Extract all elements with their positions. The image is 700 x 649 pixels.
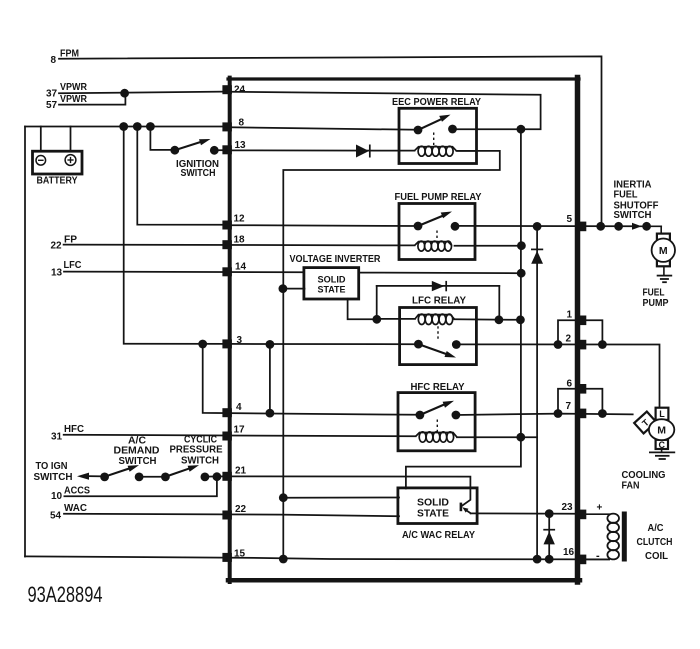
junction dot jumper bottom on pin 4 line — [266, 409, 275, 418]
LFC relay arm arrowhead — [445, 351, 457, 358]
wire HFC coil return to rail and diode drop — [457, 436, 537, 438]
junction dot LFC coil left node — [372, 315, 381, 324]
junction dot 5-line at clutch diode vertical — [533, 222, 542, 231]
wire clutch diode drop from 5-line to ground line — [536, 226, 538, 559]
diode D4 A/C clutch flyback — [544, 531, 555, 544]
svg-text:31: 31 — [51, 432, 63, 443]
LFC relay switch pivot contact — [414, 340, 423, 349]
svg-text:VPWR: VPWR — [60, 82, 88, 93]
TO IGN SWITCH arrowhead — [77, 473, 89, 480]
wire pin 12 to fuel pump relay pivot — [229, 224, 418, 227]
wire LFC flyback diode right drop — [498, 286, 500, 320]
wire pin 1 jumper right bracket — [584, 320, 602, 344]
ignition switch fixed contact — [210, 146, 219, 155]
EEC relay switch fixed contact — [448, 125, 457, 134]
svg-text:ACCS: ACCS — [64, 486, 90, 497]
svg-text:FUEL: FUEL — [614, 190, 638, 201]
svg-text:EEC POWER RELAY: EEC POWER RELAY — [392, 97, 481, 108]
svg-text:FP: FP — [64, 235, 77, 246]
ECU main box left edge — [228, 78, 232, 582]
junction dot VPWR rail top — [517, 125, 526, 134]
EEC relay coil — [415, 147, 477, 151]
wire 54 WAC line to A/C WAC relay — [64, 514, 399, 517]
junction dot ACCS at pin 21 — [213, 472, 222, 481]
svg-text:8: 8 — [51, 55, 57, 66]
ignition switch arm arrowhead — [199, 139, 211, 145]
A/C clutch coil windings — [607, 514, 619, 560]
junction dot pin1 bracket right on 2-line — [598, 340, 607, 349]
junction dot pin3 feed to pin4 riser — [198, 340, 207, 349]
pin 6 square — [576, 384, 586, 394]
fan motor circle — [649, 419, 674, 440]
svg-text:4: 4 — [236, 402, 242, 413]
svg-text:23: 23 — [562, 502, 574, 513]
LFC relay dashed actuator link — [437, 326, 439, 339]
junction dot inverter feed — [279, 284, 288, 293]
svg-text:18: 18 — [234, 235, 246, 246]
svg-text:C: C — [659, 440, 666, 450]
LFC relay switch fixed contact — [452, 340, 461, 349]
cyclic pressure switch pivot contact — [161, 473, 170, 482]
wire inverter output top to VPWR rail — [359, 272, 522, 275]
wire bus drop to ignition switch — [150, 127, 171, 150]
diode D4 bar — [543, 529, 555, 531]
svg-text:FUEL PUMP RELAY: FUEL PUMP RELAY — [395, 192, 482, 203]
svg-text:SWITCH: SWITCH — [181, 456, 219, 467]
pin 16 square — [576, 555, 586, 565]
EEC relay switch pivot contact — [414, 126, 423, 135]
wire 22 FP line to fuel pump relay coil — [64, 244, 415, 247]
wire bus drop to pin 12 — [137, 127, 223, 225]
svg-text:STATE: STATE — [318, 285, 346, 295]
pin 23 square — [576, 510, 586, 520]
A/C demand switch fixed contact — [135, 473, 144, 482]
svg-text:FPM: FPM — [60, 49, 79, 60]
junction dot WAC feed on vertical — [279, 493, 288, 502]
junction dot jumper top on pin 3 line — [266, 340, 275, 349]
svg-text:HFC: HFC — [64, 424, 84, 435]
svg-text:1: 1 — [567, 310, 573, 321]
A/C clutch coil leads — [583, 514, 610, 559]
HFC relay dashed actuator link — [436, 420, 438, 433]
junction dot rail at LFC coil — [516, 315, 525, 324]
wire TO IGN SWITCH lead — [87, 475, 105, 477]
svg-text:-: - — [596, 550, 600, 562]
svg-text:13: 13 — [51, 268, 63, 279]
diode D2 bar — [445, 281, 447, 291]
svg-text:21: 21 — [235, 466, 247, 477]
svg-text:PUMP: PUMP — [643, 298, 669, 309]
pin 13 square — [222, 145, 232, 154]
cooling fan motor M2 — [634, 408, 674, 449]
inertia switch arrowhead — [632, 223, 642, 230]
svg-text:7: 7 — [566, 401, 572, 412]
svg-text:HFC RELAY: HFC RELAY — [411, 382, 465, 393]
svg-text:SOLID: SOLID — [417, 498, 449, 509]
wire pin 6 jumper left bracket — [558, 389, 577, 414]
pin 2 square — [576, 340, 586, 350]
fuel pump relay coil — [415, 242, 453, 246]
HFC relay switch pivot contact — [416, 411, 425, 420]
svg-text:L: L — [659, 409, 665, 419]
wire pin 24 to EEC relay contact feed — [229, 92, 541, 130]
svg-text:14: 14 — [235, 262, 247, 273]
cyclic pressure switch arm arrowhead — [188, 465, 199, 472]
inertia switch left contact — [614, 222, 623, 231]
cyclic pressure switch fixed contact — [201, 473, 210, 482]
A/C demand switch pivot contact — [100, 473, 109, 482]
pin 4 square — [222, 408, 232, 417]
wire inverter bottom output to LFC coil node — [348, 299, 377, 320]
wire EEC coil return loop to voltage inverter feed — [283, 151, 500, 559]
inertia switch right contact — [642, 222, 651, 231]
A/C demand switch arm — [105, 468, 130, 476]
EEC power relay box U1 — [399, 108, 477, 163]
ECU main box top edge — [228, 77, 579, 80]
svg-text:24: 24 — [234, 85, 246, 96]
wire far-left ground return down — [24, 127, 26, 557]
LFC relay box U3 — [400, 308, 477, 365]
A/C clutch coil core bar — [622, 512, 627, 562]
wire 57 VPWR with riser to 37 VPWR — [59, 93, 125, 104]
svg-text:FUEL: FUEL — [643, 288, 665, 299]
pin 18 square — [222, 240, 232, 249]
junction dot rail at FP coil — [517, 241, 526, 250]
svg-text:BATTERY: BATTERY — [37, 176, 78, 187]
fuel pump relay switch arm — [418, 216, 443, 226]
pin 1 square — [576, 316, 586, 326]
svg-text:22: 22 — [51, 241, 63, 252]
wire pin 21 line to WAC transistor base — [229, 476, 470, 505]
svg-text:M: M — [657, 425, 666, 437]
EEC relay switch arm — [418, 119, 441, 130]
svg-text:93A28894: 93A28894 — [28, 582, 103, 607]
junction dot VPWR — [120, 89, 129, 98]
wire battery bus — [25, 126, 223, 128]
battery box — [33, 151, 83, 174]
wire LFC flyback diode line — [377, 285, 500, 287]
svg-text:SWITCH: SWITCH — [181, 168, 216, 179]
wire HFC switch output 7-line to cooling fan — [456, 414, 633, 415]
svg-text:DEMAND: DEMAND — [114, 446, 160, 457]
wire cyclic switch contact to pin 21 — [205, 475, 223, 477]
pin 7 square — [576, 409, 586, 419]
svg-text:A/C WAC RELAY: A/C WAC RELAY — [402, 530, 475, 541]
wire jumper pin3-line to pin4-line — [269, 344, 271, 413]
svg-text:16: 16 — [563, 547, 575, 558]
wire battery negative lead — [40, 127, 42, 152]
svg-text:CLUTCH: CLUTCH — [637, 537, 673, 548]
wire ground line along bottom — [25, 556, 609, 559]
wire 31 HFC line to HFC relay coil — [64, 435, 416, 437]
svg-text:LFC RELAY: LFC RELAY — [412, 296, 466, 307]
svg-text:17: 17 — [234, 425, 246, 436]
svg-text:37: 37 — [46, 89, 58, 100]
wire fuel pump relay output 5-line — [455, 225, 661, 227]
pin 17 square — [222, 432, 232, 441]
ignition switch pivot contact — [170, 146, 179, 155]
pin 22 square — [222, 511, 232, 520]
LFC relay coil — [415, 315, 455, 320]
voltage inverter solid state box U5 — [304, 268, 359, 299]
HFC relay coil — [416, 433, 458, 438]
svg-text:2: 2 — [566, 334, 572, 345]
pin 12 square — [222, 221, 232, 230]
svg-text:12: 12 — [234, 214, 246, 225]
junction dot FPM at 5-line — [596, 222, 605, 231]
junction dot clutch feed diode at ground — [533, 555, 542, 564]
junction dot LFC diode right node — [495, 315, 504, 324]
svg-text:A/C: A/C — [648, 523, 664, 534]
wire 37 VPWR to pin 24 — [59, 92, 223, 94]
fuel pump motor M1 — [652, 226, 675, 266]
wire 13 LFC line to pin 14 — [64, 271, 304, 274]
svg-text:13: 13 — [235, 140, 247, 151]
A/C demand switch arm arrowhead — [128, 465, 139, 472]
wire ignition switch contact to pin 13 — [214, 149, 223, 151]
ECU main box bottom edge — [228, 578, 580, 583]
svg-text:PRESSURE: PRESSURE — [170, 445, 223, 456]
fuel pump relay box U2 — [399, 204, 475, 260]
wire FPM top run and right drop to fuel pump node — [59, 56, 602, 226]
svg-text:SWITCH: SWITCH — [34, 472, 73, 483]
wire 10 ACCS line with riser to pin 21 line — [64, 477, 217, 496]
wire LFC coil return to VPWR rail — [377, 318, 415, 320]
wire fuel pump relay coil return to VPWR rail — [455, 245, 522, 247]
wire LFC switch output to pin 2 and cooling fan — [456, 344, 659, 408]
fan C terminal block — [656, 440, 668, 449]
junction dot rail at inverter line — [517, 269, 526, 278]
wire bus drop to pin 3 line — [124, 127, 229, 344]
EEC relay arm arrowhead — [439, 115, 450, 122]
svg-text:VOLTAGE INVERTER: VOLTAGE INVERTER — [290, 254, 382, 265]
fan L terminal block — [656, 408, 669, 420]
junction dot bus C — [146, 122, 155, 131]
pin 8 square — [222, 122, 232, 131]
fuel pump relay arm arrowhead — [441, 212, 452, 219]
HFC relay box U4 — [398, 393, 475, 451]
svg-text:STATE: STATE — [417, 509, 449, 520]
HFC relay switch arm — [420, 404, 445, 415]
pin 24 square — [222, 85, 232, 94]
wire WAC transistor emitter to pin 23 line — [467, 511, 471, 514]
junction dot bus A — [119, 122, 128, 131]
diode D3 bar — [531, 248, 543, 250]
fuel pump ground — [657, 266, 673, 282]
svg-text:COOLING: COOLING — [622, 470, 666, 481]
wire battery positive lead — [70, 127, 72, 152]
svg-text:VPWR: VPWR — [60, 94, 88, 105]
wire WAC relay feed stub from vertical — [283, 497, 399, 499]
WAC transistor base bar — [460, 503, 463, 512]
diode D1 on pin 13 line — [356, 145, 369, 158]
wire VPWR rail vertical — [406, 129, 521, 488]
svg-text:LFC: LFC — [64, 260, 82, 271]
fuel pump relay dashed actuator link — [436, 231, 438, 242]
svg-text:+: + — [597, 503, 603, 514]
HFC relay arm arrowhead — [443, 401, 454, 408]
HFC relay switch fixed contact — [452, 411, 461, 420]
diode D3 on clutch feed vertical — [531, 251, 543, 264]
wire pin 13 to EEC relay coil (diode segment) — [229, 149, 415, 151]
svg-text:22: 22 — [235, 504, 247, 515]
cooling fan ground — [649, 449, 675, 459]
EEC relay dashed actuator link — [433, 133, 435, 147]
junction dot vertical at ground line — [279, 555, 288, 564]
svg-text:M: M — [659, 245, 668, 257]
junction dot pin6 bracket left on 7-line — [554, 409, 563, 418]
svg-text:FAN: FAN — [622, 481, 640, 492]
fuel pump relay switch fixed contact — [451, 222, 460, 231]
svg-text:6: 6 — [567, 379, 573, 390]
A/C WAC relay solid state box U6 — [398, 488, 477, 524]
ignition switch arm — [175, 142, 202, 151]
ECU main box right edge — [575, 78, 581, 583]
pin 14 square — [222, 267, 232, 276]
diode D2 LFC flyback — [432, 281, 445, 291]
diode D1 bar — [369, 145, 371, 158]
wire pin 3 LFC switch line — [229, 343, 418, 345]
wire pin 4 feed riser from pin 3 line — [203, 344, 420, 415]
svg-text:10: 10 — [51, 491, 63, 502]
LFC relay switch arm — [418, 344, 446, 354]
svg-text:5: 5 — [567, 214, 573, 225]
wire pin 8 to EEC relay switch pivot — [229, 127, 418, 130]
svg-text:54: 54 — [50, 511, 62, 522]
wire between demand and cyclic switches — [139, 476, 165, 478]
wire pin 6 jumper right bracket — [584, 389, 602, 414]
svg-text:57: 57 — [46, 100, 58, 111]
svg-text:COIL: COIL — [645, 551, 668, 562]
WAC transistor emitter arrowhead — [462, 507, 468, 512]
junction dot clutch flyback top on 23-line — [545, 509, 554, 518]
svg-text:SWITCH: SWITCH — [119, 456, 157, 467]
pin 3 square — [222, 339, 232, 348]
junction dot rail at HFC coil — [516, 433, 525, 442]
junction dot clutch flyback bottom on ground — [545, 555, 554, 564]
fan T terminal block — [634, 412, 656, 434]
pin 15 square — [222, 553, 232, 562]
wire pin 1 jumper left bracket — [558, 320, 577, 344]
junction dot pin1 bracket left on 2-line — [554, 340, 563, 349]
cyclic pressure switch arm — [165, 468, 189, 476]
wire LFC flyback diode branch left riser — [376, 286, 378, 319]
wire inverter feed stub — [283, 288, 304, 290]
junction dot bus B — [133, 122, 142, 131]
junction dot pin6 bracket right on 7-line — [598, 409, 607, 418]
svg-text:TO IGN: TO IGN — [36, 461, 68, 472]
pin 21 square — [222, 472, 232, 481]
svg-text:WAC: WAC — [64, 503, 87, 514]
pin 5 square — [576, 222, 586, 232]
svg-text:SOLID: SOLID — [318, 275, 346, 285]
svg-text:SWITCH: SWITCH — [614, 210, 652, 221]
wire A/C clutch diode vertical — [548, 514, 550, 560]
fuel pump relay switch pivot contact — [414, 222, 423, 231]
